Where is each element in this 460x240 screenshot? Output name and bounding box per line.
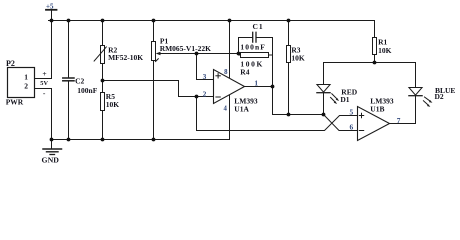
svg-text:10K: 10K: [378, 46, 392, 55]
junction +5 rail / P1: [152, 19, 156, 23]
wire U1A pin4 stub to ground rail: [229, 95, 231, 140]
svg-text:RM065-V1-22K: RM065-V1-22K: [160, 44, 211, 53]
junction ground rail / P1: [152, 138, 156, 142]
junction ground rail / GND: [50, 138, 54, 142]
svg-text:PWR: PWR: [6, 98, 24, 107]
wire LED supply span: [324, 62, 416, 64]
svg-text:-: -: [43, 88, 46, 97]
svg-text:8: 8: [224, 69, 228, 76]
junction pin2 wire / U1B feed: [195, 95, 199, 99]
junction R3 / lower net: [287, 113, 291, 117]
resistor R1: [373, 38, 392, 63]
svg-text:3: 3: [203, 72, 207, 81]
wire P2 pin1 feed from rail: [35, 21, 52, 79]
junction +5 rail / R3: [287, 19, 291, 23]
wire U1A output: [245, 86, 273, 88]
svg-text:MF52-10K: MF52-10K: [108, 53, 143, 62]
svg-text:10K: 10K: [106, 100, 120, 109]
resistor R4: [239, 53, 273, 77]
junction +5 rail / R2: [101, 19, 105, 23]
wire bottom ground rail: [52, 139, 230, 141]
svg-text:C2: C2: [75, 77, 84, 86]
wire feedback column down to lower net: [273, 38, 324, 115]
capacitor C2: [63, 21, 98, 140]
svg-text:GND: GND: [42, 155, 60, 164]
power +5 symbol: [46, 2, 57, 20]
ground: [42, 140, 62, 165]
LED D1: [317, 63, 358, 115]
svg-text:4: 4: [224, 105, 228, 112]
svg-text:R4: R4: [240, 68, 249, 77]
svg-text:U1A: U1A: [234, 105, 249, 114]
junction R1 / LED supply: [373, 61, 377, 65]
svg-text:+5: +5: [46, 2, 54, 10]
svg-text:C1: C1: [253, 22, 264, 31]
svg-text:100nF: 100nF: [240, 43, 266, 52]
op-amp U1A: [203, 69, 259, 114]
svg-text:10K: 10K: [291, 54, 305, 63]
svg-text:D2: D2: [435, 92, 444, 101]
wire rail corner down to R1: [374, 21, 376, 38]
svg-text:2: 2: [24, 81, 28, 90]
wire U1A pin2 node to crossover to pin5: [197, 97, 358, 131]
potentiometer P1: [152, 21, 212, 140]
wire U1A pin8 stub to rail: [229, 21, 231, 79]
svg-text:+: +: [42, 69, 46, 78]
svg-text:6: 6: [350, 122, 354, 131]
wire wiper node down to U1A pin3: [197, 54, 214, 80]
junction U1A output / feedback: [271, 85, 275, 89]
junction wiper wire / pin3 branch: [195, 52, 199, 56]
svg-text:2: 2: [203, 90, 207, 99]
wire divider node to U1A pin2: [103, 81, 214, 97]
svg-text:U1B: U1B: [370, 105, 384, 114]
svg-text:5: 5: [350, 107, 354, 116]
connector P2: [6, 59, 49, 107]
wire crossover upper-left to pin6: [324, 115, 358, 131]
junction wiper wire / C1-R4: [237, 52, 241, 56]
resistor R3: [287, 21, 305, 115]
svg-text:D1: D1: [340, 95, 349, 104]
wire U1B output to D2: [390, 97, 416, 124]
svg-text:1: 1: [24, 72, 28, 81]
wire P1 wiper: [160, 53, 239, 55]
junction ground rail / R5: [101, 138, 105, 142]
wire P2 pin2 to ground rail: [35, 89, 52, 140]
junction D1 cathode / lower net: [322, 113, 326, 117]
resistor R5: [101, 92, 120, 139]
wire top +5 rail: [49, 20, 375, 22]
junction +5 rail / U1A pin8: [228, 19, 232, 23]
junction node R2/R5 divider: [101, 79, 105, 83]
svg-text:100nF: 100nF: [77, 86, 97, 95]
junction +5 rail / P2 pin1 feed: [50, 19, 54, 23]
thermistor R2: [94, 21, 143, 93]
capacitor C1: [239, 22, 273, 53]
svg-text:5V: 5V: [40, 80, 48, 87]
LED D2: [409, 63, 456, 107]
svg-text:P2: P2: [6, 59, 15, 68]
svg-text:1: 1: [254, 78, 258, 87]
junction ground rail / C2: [67, 138, 71, 142]
junction +5 rail / C2: [67, 19, 71, 23]
op-amp U1B: [350, 97, 401, 141]
